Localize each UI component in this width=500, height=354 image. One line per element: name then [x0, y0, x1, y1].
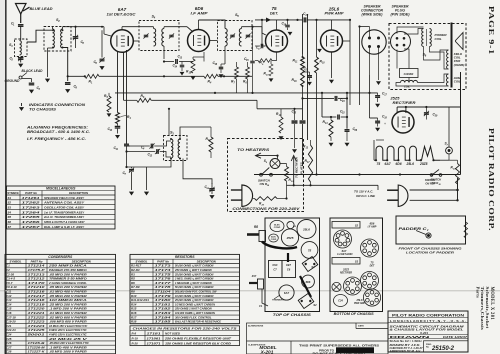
- padder screw: [426, 233, 431, 238]
- tube 6A7 top view: [279, 285, 294, 300]
- svg-text:TO CHASSIS: TO CHASSIS: [29, 108, 57, 112]
- wire connector pin down: [369, 47, 371, 76]
- wire 6D6 grid cap: [187, 27, 193, 32]
- trimmer capacitor C4: [151, 144, 153, 149]
- resistor R5 osc grid leak: [107, 96, 111, 112]
- wire 6D6 plate to S5: [210, 40, 218, 42]
- chassis arrow under C21: [307, 82, 312, 86]
- svg-text:R-20: R-20: [132, 341, 139, 345]
- padder arrow: [416, 231, 426, 235]
- wire 25L6 grid top: [331, 20, 333, 30]
- svg-text:APPROVED BY M. Apr: APPROVED BY M. Apr: [388, 350, 421, 353]
- capacitor C20: [304, 17, 306, 22]
- svg-text:25L6: 25L6: [406, 162, 415, 166]
- svg-text:CHANGES IN RESISTORS FOR 220-2: CHANGES IN RESISTORS FOR 220-240 VOLTS: [133, 327, 237, 331]
- resistor R6: [246, 67, 250, 79]
- choke coil winding: [401, 80, 418, 82]
- wire connector pin down 2: [378, 47, 380, 81]
- chassis arrow under C3: [29, 90, 34, 94]
- RF transformer S2: [44, 27, 71, 52]
- capacitor C18 electrolytic: [375, 121, 380, 123]
- svg-text:6D6: 6D6: [396, 162, 402, 166]
- resistor R11: [301, 57, 305, 70]
- capacitor C1: [18, 25, 24, 27]
- wires rail to plates: [397, 107, 406, 113]
- capacitor C2 padder: [18, 58, 24, 60]
- ground lug: [19, 73, 32, 80]
- svg-text:COIL: COIL: [454, 80, 461, 84]
- svg-text:SYMBOL: SYMBOL: [7, 191, 19, 195]
- C24 can: [334, 295, 348, 307]
- svg-text:Parts: Parts: [475, 287, 480, 298]
- svg-text:SPKR & OUTPUT & CHOKE ASSY: SPKR & OUTPUT & CHOKE ASSY: [44, 220, 86, 224]
- svg-text:X-201: X-201: [260, 350, 274, 354]
- chassis arrow under C6: [99, 66, 104, 70]
- wire connector top pin: [369, 27, 371, 38]
- wire bus drop: [321, 93, 323, 117]
- svg-text:DATE: DATE: [358, 325, 364, 328]
- svg-text:GROUND: GROUND: [5, 79, 21, 83]
- resistor R10a: [269, 64, 273, 76]
- chassis arrow under C9: [65, 89, 70, 93]
- wire: [360, 26, 370, 28]
- osc wiring: [127, 109, 213, 190]
- alterations box: [247, 323, 389, 354]
- wire lamp top: [277, 156, 279, 159]
- trimmer capacitor C8: [73, 37, 79, 39]
- wire to C24: [303, 97, 335, 99]
- heater filament string: [374, 146, 440, 160]
- tube 6D6 IF amp: [188, 30, 210, 52]
- capacitor C29: [424, 113, 429, 115]
- top B+ rail wire: [255, 19, 303, 21]
- volume control R8: [247, 231, 266, 242]
- svg-text:S3: S3: [355, 260, 359, 264]
- wire 6A7 cathode down: [126, 50, 128, 144]
- socket 75 bottom view: [361, 272, 379, 290]
- wire to C22: [281, 108, 303, 110]
- wire bus to R12: [151, 99, 257, 101]
- resistor R10: [315, 57, 319, 73]
- chassis arrow osc 1: [129, 192, 134, 196]
- wire ant to S1: [20, 26, 22, 40]
- wire: [224, 46, 226, 64]
- svg-text:S4: S4: [8, 210, 12, 214]
- wire: [62, 27, 64, 29]
- capacitor C10: [115, 126, 121, 128]
- svg-text:RECTIFIER: RECTIFIER: [393, 101, 417, 105]
- B+ wire 1: [302, 14, 304, 54]
- page left edge line: [5, 0, 7, 354]
- tube 75 top view: [301, 242, 318, 259]
- wire jog to plug: [377, 185, 379, 190]
- AVC bus wire 2: [145, 75, 204, 77]
- dial lamp: [332, 282, 341, 291]
- capacitor C19: [285, 25, 290, 27]
- output transformer primary: [422, 29, 432, 47]
- svg-text:L O N G I S L A N D C I T Y: L O N G I S L A N D C I T Y , N . Y . , …: [390, 320, 466, 323]
- svg-text:MISCELLANEOUS: MISCELLANEOUS: [46, 186, 76, 190]
- chassis arrow under C2: [18, 64, 23, 68]
- svg-text:S1: S1: [8, 196, 12, 200]
- svg-text:25Z5: 25Z5: [342, 268, 349, 272]
- wire C20 to 25L6 grid: [307, 19, 332, 21]
- svg-text:OSCILLATOR COIL ASSY: OSCILLATOR COIL ASSY: [44, 205, 85, 209]
- small resistor circle: [287, 221, 294, 228]
- wire 6A7 osc grid down: [117, 52, 119, 113]
- resistor R13-R17 chain: [308, 145, 312, 182]
- svg-text:X-201: X-201: [419, 331, 428, 335]
- socket 6D6 bottom view: [361, 239, 379, 257]
- resistor R19: [285, 167, 289, 182]
- wire: [163, 46, 165, 59]
- IF transformer S2 bar: [332, 222, 360, 229]
- svg-text:R18: R18: [131, 320, 137, 324]
- svg-text:1st I.F. TRANSFORMER ASSY: 1st I.F. TRANSFORMER ASSY: [44, 210, 85, 214]
- svg-text:TRIMMERS: TRIMMERS: [272, 300, 284, 302]
- wire plate to speaker connector: [359, 27, 361, 106]
- chassis arrow under R12: [279, 136, 284, 140]
- svg-text:PLATES: PLATES: [300, 162, 304, 174]
- svg-text:SWITCH: SWITCH: [431, 178, 442, 182]
- svg-text:COND: COND: [274, 227, 281, 229]
- svg-text:BLUE LEAD: BLUE LEAD: [30, 7, 54, 11]
- svg-text:SYMBOL: SYMBOL: [10, 259, 22, 263]
- svg-text:COIL: COIL: [435, 37, 442, 41]
- wire to rectifier plates: [291, 156, 296, 186]
- trimmer capacitor C6: [100, 59, 105, 61]
- svg-text:OSC: OSC: [272, 264, 277, 267]
- dial cord: [300, 276, 311, 297]
- capacitor C14: [180, 65, 185, 67]
- wire rectifier cathode to line: [460, 72, 462, 175]
- svg-text:TO HEATERS: TO HEATERS: [237, 148, 270, 152]
- speaker cone: [456, 33, 464, 50]
- wire: [117, 129, 119, 134]
- margin text MODEL X 201 index: [475, 287, 493, 331]
- resistor R20: [255, 197, 278, 201]
- trimmer box OSC C7: [269, 261, 283, 278]
- AVC bus wire: [68, 75, 85, 77]
- svg-text:R-8: R-8: [132, 332, 137, 336]
- svg-text:BALLAST RESISTOR 40 RESISTANCE: BALLAST RESISTOR 40 RESISTANCE: [175, 320, 222, 324]
- svg-text:I.F AMP: I.F AMP: [191, 12, 209, 16]
- AC plug 110V: [387, 185, 408, 207]
- svg-text:CONDENSERS: CONDENSERS: [48, 255, 73, 259]
- wire to C26: [346, 93, 348, 129]
- chassis arrow under C19: [288, 32, 293, 36]
- resistor R14: [329, 120, 333, 137]
- chassis arrow under 25L6: [329, 80, 334, 84]
- wire 220V rail: [287, 184, 379, 186]
- svg-text:CONNECTIONS FOR 220-240V: CONNECTIONS FOR 220-240V: [232, 207, 300, 211]
- bottom bus wire: [254, 174, 461, 176]
- svg-text:1st DET.&OSC: 1st DET.&OSC: [107, 13, 136, 17]
- svg-text:S2: S2: [355, 224, 359, 228]
- svg-text:LOCATION OF PADDER: LOCATION OF PADDER: [406, 251, 455, 255]
- wire: [20, 60, 22, 63]
- antenna coil S1: [15, 39, 28, 57]
- resistor R16: [301, 70, 305, 86]
- wire rail to output transformer: [332, 19, 351, 21]
- svg-text:.05 MFD 1000 V PAPER: .05 MFD 1000 V PAPER: [49, 350, 88, 354]
- svg-text:R8: R8: [254, 225, 258, 229]
- svg-text:75: 75: [271, 6, 277, 11]
- svg-text:25Z5: 25Z5: [419, 162, 428, 166]
- svg-text:I.F. FREQUENCY - 456 K.C.: I.F. FREQUENCY - 456 K.C.: [27, 137, 86, 141]
- resistor on padder box edge: [464, 222, 468, 238]
- svg-text:PAGE 9-1: PAGE 9-1: [487, 6, 495, 55]
- wire S5 out: [242, 26, 263, 28]
- parts table CONDENSERS: [5, 254, 116, 353]
- capacitor C22 electrolytic: [300, 121, 306, 123]
- speaker wiring: [396, 27, 449, 86]
- svg-text:C1: C1: [259, 304, 263, 308]
- wire 75 top: [276, 20, 278, 30]
- svg-text:TO RECTIFIER: TO RECTIFIER: [295, 156, 299, 178]
- wire 75 grid from S5: [262, 27, 266, 35]
- svg-text:(OHMS): (OHMS): [454, 63, 465, 67]
- gang condenser shaft: [287, 253, 289, 262]
- svg-text:C7: C7: [273, 268, 277, 272]
- svg-text:PILOT RADIO CORPORATION: PILOT RADIO CORPORATION: [392, 314, 465, 318]
- connections for 220-240V dashed box: [228, 139, 304, 212]
- svg-text:BLACK LEAD: BLACK LEAD: [22, 69, 44, 73]
- socket 6A7 bottom view: [334, 230, 352, 248]
- svg-text:I.F AMP: I.F AMP: [368, 226, 377, 229]
- wire 6A7 top: [121, 27, 123, 30]
- tube 25Z5 top view: [281, 229, 298, 246]
- svg-text:C6: C6: [287, 268, 291, 272]
- wire: [256, 100, 258, 109]
- svg-text:17267: 17267: [22, 225, 41, 229]
- svg-text:250 OHMS FLEXIBLE RESISTOR UNI: 250 OHMS FLEXIBLE RESISTOR UNIT: [164, 336, 232, 340]
- capacitor C12: [157, 149, 159, 154]
- bottom of chassis box: [330, 218, 383, 312]
- svg-text:PWR AMP: PWR AMP: [354, 303, 365, 305]
- thick lead from R8: [262, 242, 297, 249]
- svg-text:ON R: ON R: [432, 181, 439, 185]
- svg-text:S2: S2: [8, 201, 12, 205]
- wire: [153, 27, 155, 29]
- IF transformer S3 bar: [332, 258, 360, 265]
- svg-text:25Z5: 25Z5: [286, 236, 294, 240]
- wire bus: [218, 75, 252, 77]
- svg-text:25L6: 25L6: [302, 228, 310, 232]
- svg-text:17185: 17185: [155, 320, 172, 324]
- wire S2 secondary bottom: [63, 48, 68, 82]
- svg-text:DIAL LAMP & S.W. LT. ASSY: DIAL LAMP & S.W. LT. ASSY: [44, 225, 85, 229]
- wire S7 up to rectifier rail: [448, 107, 450, 147]
- arrow to heaters: [256, 153, 278, 158]
- table CHANGES IN RESISTORS FOR 220-240 VOLTS: [130, 326, 240, 346]
- svg-text:SYMBOL: SYMBOL: [136, 259, 148, 263]
- wire: [257, 108, 281, 110]
- parts table RESISTORS: [130, 254, 240, 323]
- dial lamp S7: [446, 147, 453, 154]
- capacitor C17: [375, 96, 380, 98]
- wire 25L6 plate: [343, 40, 351, 42]
- svg-text:(WIRE SIDE): (WIRE SIDE): [362, 13, 384, 17]
- trimmer arrow: [274, 295, 280, 299]
- svg-text:RESISTORS: RESISTORS: [175, 255, 195, 259]
- coil S1 tilted box: [302, 256, 318, 271]
- svg-text:S7: S7: [8, 225, 12, 229]
- svg-text:171227-K: 171227-K: [28, 350, 46, 354]
- B+ wire 2: [307, 14, 309, 140]
- resistor R6 volume bus: [137, 98, 151, 102]
- svg-text:PWR AMP: PWR AMP: [325, 12, 344, 16]
- svg-text:171861: 171861: [147, 336, 162, 340]
- wire 6D6 screen: [193, 52, 204, 62]
- wire bus: [99, 75, 145, 77]
- svg-text:6D6: 6D6: [306, 280, 311, 284]
- tube 25L6 top view: [297, 220, 316, 239]
- padder location box: [396, 216, 466, 244]
- resistors table blank rows: [130, 323, 240, 325]
- wire B+ to output transformer: [349, 20, 351, 105]
- wire 6A7 anode to volume bus: [123, 52, 125, 100]
- svg-text:(PIN SIDE): (PIN SIDE): [391, 13, 411, 17]
- svg-text:17264: 17264: [22, 210, 41, 214]
- resistor R3: [116, 113, 120, 124]
- wire R18 to line: [457, 184, 459, 190]
- speaker connector wire side: [362, 30, 386, 54]
- wire: [124, 99, 137, 101]
- capacitor C25 electrolytic: [292, 121, 298, 123]
- svg-text:DESCRIPTION: DESCRIPTION: [72, 259, 92, 263]
- pilot lamp S9: [270, 159, 280, 169]
- svg-text:S5: S5: [8, 215, 12, 219]
- wire: [126, 146, 128, 167]
- svg-text:SCALE No 1/2 = 1 INCH: SCALE No 1/2 = 1 INCH: [390, 340, 422, 343]
- wire grid to C6: [101, 30, 103, 57]
- svg-text:DATE 1/26/37: DATE 1/26/37: [443, 336, 468, 339]
- arrow on 75 grid wire: [266, 18, 271, 23]
- capacitor C13: [176, 59, 178, 64]
- svg-text:75: 75: [377, 162, 381, 166]
- tube 25Z5 rectifier: [392, 111, 414, 133]
- svg-text:+: +: [384, 122, 386, 126]
- capacitor C24: [335, 96, 337, 101]
- resistor R9 osc: [209, 137, 213, 152]
- resistor R15: [191, 59, 195, 73]
- redaction black box: [336, 347, 374, 353]
- svg-text:25150-2: 25150-2: [431, 346, 455, 352]
- svg-text:6D6: 6D6: [195, 6, 204, 11]
- chassis arrow under C17: [375, 104, 380, 108]
- wire S2 primary to gnd: [47, 48, 49, 77]
- svg-text:PILOT RADIO CORP.: PILOT RADIO CORP.: [487, 128, 496, 231]
- wire to S7: [440, 159, 449, 161]
- coil S2 tilted box: [298, 293, 314, 308]
- svg-text:THIS PRINT SUPERSEDES ALL OTHE: THIS PRINT SUPERSEDES ALL OTHERS: [299, 343, 379, 347]
- svg-text:6A7: 6A7: [385, 162, 391, 166]
- electrolytic condenser can: [270, 220, 284, 231]
- antenna: [16, 4, 30, 24]
- svg-text:C28: C28: [6, 350, 12, 354]
- AC plug 220V: [231, 185, 253, 206]
- wire 75 plate to top: [262, 20, 266, 46]
- svg-text:17266: 17266: [22, 220, 41, 224]
- svg-text:6A7: 6A7: [284, 291, 290, 295]
- svg-text:C24: C24: [338, 299, 343, 303]
- svg-text:BOTTOM OF CHASSIS: BOTTOM OF CHASSIS: [334, 312, 375, 316]
- svg-text:17263: 17263: [22, 205, 41, 209]
- svg-text:PART No: PART No: [31, 259, 43, 263]
- antenna lead: [262, 289, 268, 306]
- capacitor C15b: [338, 115, 340, 120]
- svg-text:COND: COND: [271, 239, 277, 241]
- tube 6D6 top view: [302, 275, 315, 288]
- chassis arrow osc 2: [144, 192, 149, 196]
- speaker plug pin side: [391, 32, 411, 52]
- speaker pole piece: [451, 23, 453, 88]
- svg-text:DWG: DWG: [426, 344, 432, 346]
- svg-text:PART No: PART No: [25, 191, 37, 195]
- svg-text:DET: DET: [286, 264, 291, 267]
- capacitor C11: [124, 144, 129, 146]
- capacitor C3: [29, 83, 35, 85]
- svg-text:OR D.C. LINE: OR D.C. LINE: [356, 194, 376, 198]
- svg-text:S2: S2: [313, 303, 317, 307]
- rectifier plate rail wire: [397, 106, 460, 108]
- chassis arrow under connector: [376, 81, 381, 85]
- chassis arrow under R14: [329, 143, 334, 147]
- svg-text:S6: S6: [8, 220, 12, 224]
- lower bus wire: [115, 92, 378, 94]
- capacitor C15: [250, 61, 255, 63]
- svg-text:RECTIFIER: RECTIFIER: [340, 273, 352, 275]
- IF transformer S5: [218, 21, 253, 51]
- parts table MISCELLANEOUS: [7, 186, 116, 229]
- chassis arrow under C16: [219, 74, 224, 78]
- wire 6D6 plate top: [198, 20, 200, 30]
- field coil winding: [447, 50, 449, 69]
- svg-text:50001: 50001: [28, 333, 46, 337]
- svg-text:25Z5: 25Z5: [390, 96, 401, 101]
- chassis arrow under C26: [345, 143, 350, 147]
- chassis arrow: [269, 78, 274, 82]
- tube 25L6 pwr amp: [321, 30, 343, 52]
- gang capacitor C7: [129, 169, 134, 171]
- horizontal fold line: [0, 290, 500, 291]
- resistor R18 ballast: [456, 164, 460, 185]
- wire R9 net: [255, 52, 277, 64]
- socket 25L6 bottom view: [363, 289, 380, 306]
- chassis arrow 25L6 cathode: [317, 49, 322, 53]
- svg-text:DRAWN: DRAWN: [390, 336, 432, 339]
- svg-text:17265: 17265: [22, 215, 41, 219]
- tone control pot: [249, 279, 264, 289]
- svg-text:17181: 17181: [147, 332, 162, 336]
- resistor R7: [235, 67, 239, 79]
- line switch symbol: [260, 168, 273, 177]
- svg-text:75: 75: [308, 249, 312, 253]
- capacitor C21 electrolytic: [307, 76, 312, 78]
- wire C15: [322, 116, 336, 118]
- wire 6A7 plate to S4: [133, 40, 139, 42]
- resistor R9: [258, 59, 272, 63]
- line switch at R18: [430, 170, 442, 177]
- note chassis arrow: [19, 107, 24, 111]
- svg-text:DET: DET: [370, 265, 375, 268]
- svg-text:TOP OF CHASSIS: TOP OF CHASSIS: [273, 313, 312, 317]
- tube 75 det: [266, 30, 288, 52]
- svg-text:2nd I.F. TRANSFORMER ASSY: 2nd I.F. TRANSFORMER ASSY: [43, 215, 85, 219]
- resistor R1: [85, 74, 99, 78]
- svg-text:150 OHMS LINE RESISTOR BLK COR: 150 OHMS LINE RESISTOR BLK CORD: [165, 341, 231, 345]
